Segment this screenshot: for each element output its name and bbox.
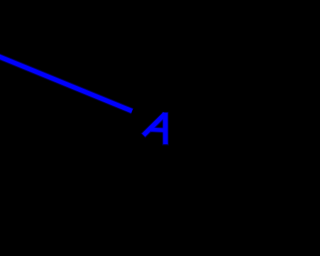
wire (0, 56, 132, 111)
node A (143, 112, 166, 146)
